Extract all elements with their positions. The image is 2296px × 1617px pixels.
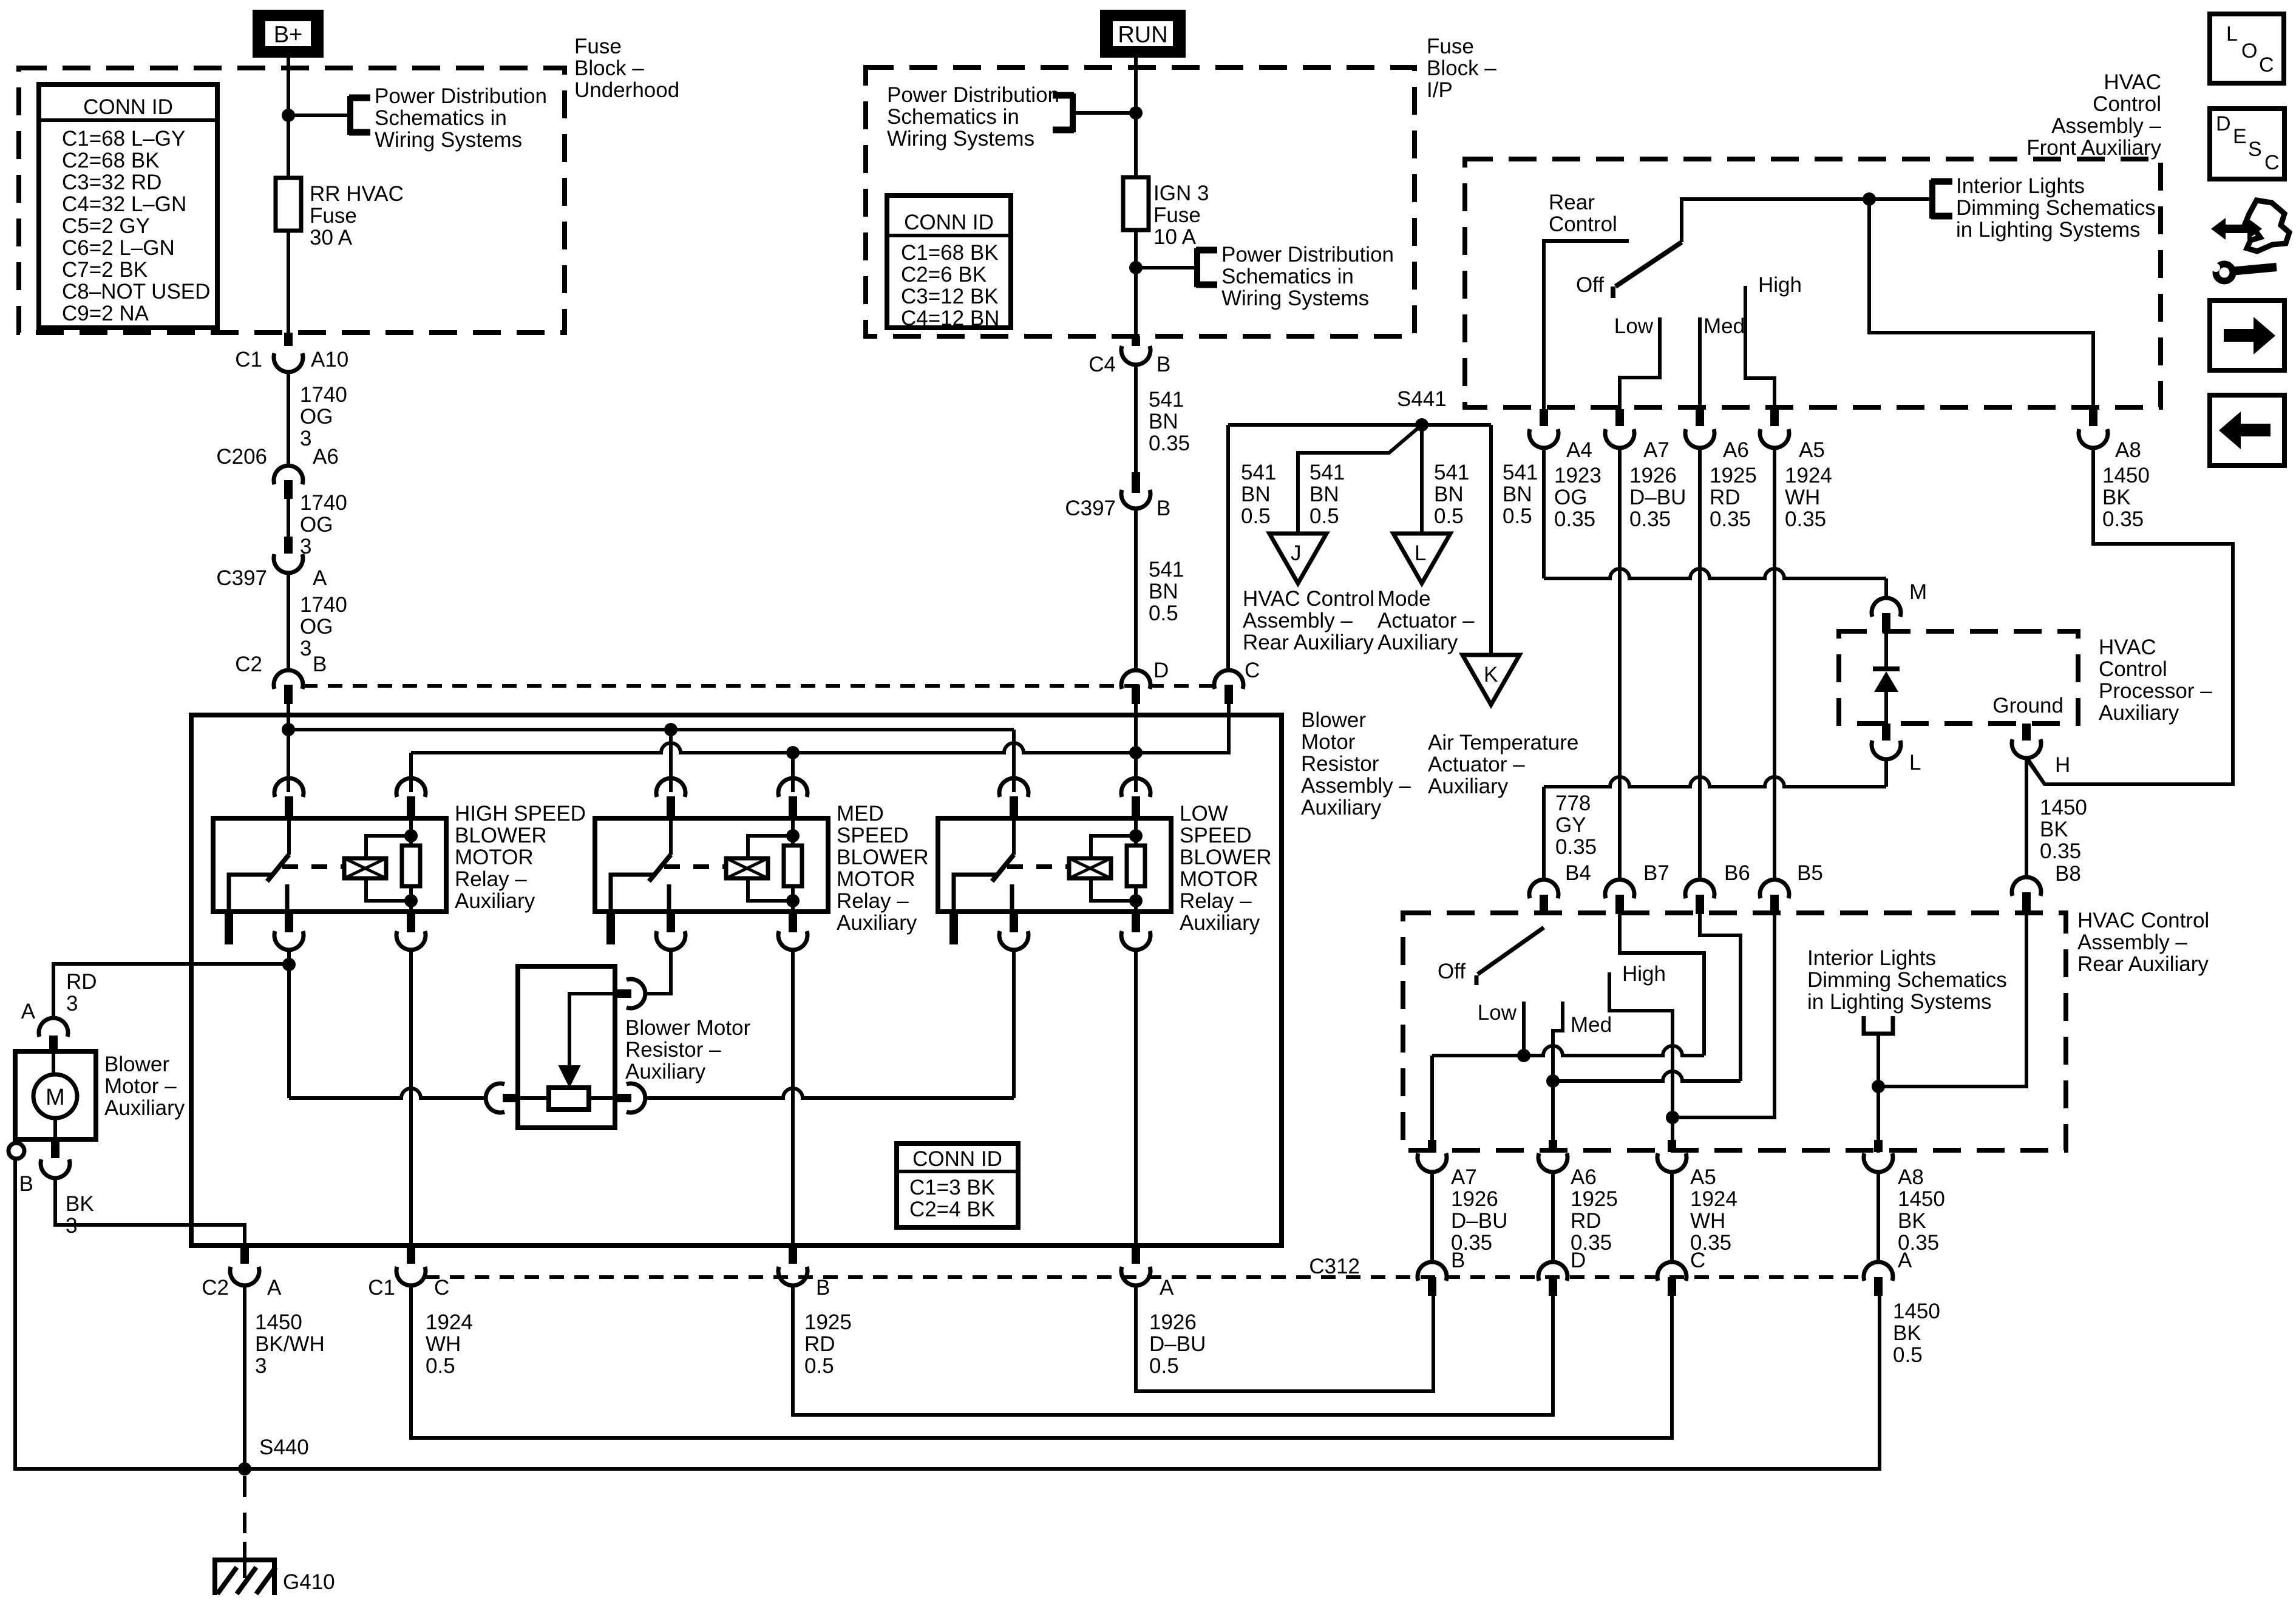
wire A5 1924 WH [1773, 449, 1776, 879]
svg-text:1450: 1450 [1898, 1187, 1945, 1211]
svg-text:A4: A4 [1566, 438, 1592, 462]
svg-text:0.35: 0.35 [1555, 835, 1597, 859]
relay switch contacts [229, 875, 273, 912]
wire 1450 BK [1877, 1173, 1880, 1262]
svg-text:10 A: 10 A [1153, 225, 1197, 249]
svg-text:Underhood: Underhood [574, 78, 679, 102]
svg-text:Low: Low [1478, 1001, 1517, 1025]
svg-text:0.5: 0.5 [1893, 1343, 1923, 1367]
svg-text:Fuse: Fuse [574, 35, 622, 58]
svg-text:Wiring Systems: Wiring Systems [887, 127, 1034, 151]
svg-text:Power Distribution: Power Distribution [1221, 243, 1394, 266]
relay top pin stubs [667, 796, 675, 819]
svg-text:Relay –: Relay – [1180, 889, 1252, 913]
svg-text:D: D [1153, 659, 1169, 682]
relay top pin stubs [1010, 796, 1018, 819]
svg-text:G410: G410 [283, 1570, 335, 1594]
svg-text:Power Distribution: Power Distribution [887, 83, 1059, 107]
rear H2 line [1553, 1071, 1741, 1081]
svg-text:Resistor: Resistor [1301, 752, 1379, 776]
svg-text:Fuse: Fuse [1153, 203, 1201, 227]
svg-text:C2=6 BK: C2=6 BK [901, 263, 987, 286]
svg-text:O: O [2241, 39, 2257, 63]
svg-text:541: 541 [1309, 461, 1345, 484]
rail B risers [409, 753, 413, 792]
svg-text:Fuse: Fuse [310, 204, 357, 228]
svg-text:C7=2 BK: C7=2 BK [62, 258, 148, 282]
connector M [1872, 598, 1901, 617]
svg-text:Assembly –: Assembly – [2077, 931, 2187, 954]
relay coil link [664, 864, 725, 869]
svg-text:C206: C206 [216, 445, 267, 469]
svg-text:Schematics in: Schematics in [887, 105, 1019, 129]
svg-text:L: L [2226, 22, 2238, 46]
svg-text:BK: BK [2102, 486, 2131, 509]
hvac control assembly front auxiliary box [1465, 159, 2161, 407]
svg-text:0.5: 0.5 [426, 1354, 455, 1378]
svg-text:BN: BN [1149, 580, 1178, 603]
resistor bottom line left [289, 1088, 486, 1098]
svg-text:C397: C397 [1065, 497, 1116, 520]
svg-text:A: A [313, 566, 327, 590]
svg-text:A5: A5 [1799, 438, 1825, 462]
svg-text:Fuse: Fuse [1427, 35, 1474, 58]
svg-text:Auxiliary: Auxiliary [2099, 701, 2179, 725]
wire B+ down [287, 56, 290, 333]
relay bottom pin stubs [1010, 912, 1018, 932]
svg-text:K: K [1484, 663, 1498, 686]
svg-text:0.5: 0.5 [1503, 504, 1532, 528]
rail A drop to relay2 [669, 730, 673, 792]
power node RUN [1101, 11, 1184, 56]
rear med contact [1553, 1002, 1563, 1153]
svg-text:Blower Motor: Blower Motor [625, 1016, 751, 1040]
svg-text:Front Auxiliary: Front Auxiliary [2026, 136, 2161, 160]
svg-text:BN: BN [1309, 483, 1339, 506]
svg-text:Power Distribution: Power Distribution [375, 84, 547, 108]
svg-text:OG: OG [300, 405, 333, 429]
svg-text:Auxiliary: Auxiliary [1428, 775, 1509, 798]
rear B6 leg [1700, 914, 1741, 1081]
svg-text:C: C [2264, 151, 2280, 174]
svg-text:Schematics in: Schematics in [1221, 265, 1354, 288]
svg-text:B7: B7 [1643, 861, 1669, 885]
blower case ground circle [8, 1143, 24, 1159]
wire relay3 left pin down to resistor line [1012, 951, 1016, 1098]
svg-text:C4=32 L–GN: C4=32 L–GN [62, 192, 186, 216]
svg-text:RD: RD [804, 1332, 835, 1356]
svg-text:E: E [2233, 125, 2247, 148]
svg-text:High: High [1622, 962, 1666, 986]
fuse RR HVAC 30A [276, 178, 301, 231]
svg-text:D: D [2216, 112, 2231, 135]
connector A6 [1696, 409, 1704, 426]
svg-text:IGN 3: IGN 3 [1153, 181, 1209, 205]
front rear control contact [1544, 241, 1629, 409]
svg-text:HVAC Control: HVAC Control [2077, 909, 2209, 932]
svg-text:0.5: 0.5 [804, 1354, 834, 1378]
svg-text:1925: 1925 [1710, 464, 1757, 487]
svg-text:541: 541 [1149, 558, 1184, 581]
relay bottom pin connectors [999, 931, 1028, 950]
connector C312 A [1864, 1262, 1893, 1281]
rear A7 leg [1430, 1056, 1434, 1153]
svg-text:C3=32 RD: C3=32 RD [62, 171, 161, 194]
icon wrench [2216, 264, 2233, 281]
svg-text:Block –: Block – [574, 56, 644, 80]
wire blower motor B [55, 1179, 245, 1246]
svg-text:C4: C4 [1089, 353, 1116, 376]
svg-text:Motor: Motor [1301, 730, 1356, 754]
svg-text:Control: Control [2099, 657, 2167, 681]
blower motor resistor box [518, 966, 615, 1128]
svg-text:A6: A6 [1571, 1165, 1597, 1189]
svg-text:A6: A6 [1723, 438, 1749, 462]
rear B7 leg [1620, 914, 1704, 1056]
svg-text:BLOWER: BLOWER [837, 846, 929, 869]
front interior lights bracket [1929, 180, 1935, 219]
wire S441 to L [1420, 425, 1424, 534]
svg-text:Auxiliary: Auxiliary [1180, 911, 1260, 935]
wire 1925 RD [1551, 1173, 1555, 1262]
svg-text:RD: RD [1571, 1209, 1601, 1233]
svg-text:I/P: I/P [1427, 78, 1453, 102]
connector A bottom [1132, 1246, 1140, 1264]
svg-text:Rear Auxiliary: Rear Auxiliary [1243, 631, 1374, 654]
relay coil [344, 858, 386, 878]
wire A7 1926 DBU [1618, 449, 1622, 879]
svg-text:Wiring Systems: Wiring Systems [375, 128, 522, 152]
wire 1740 OG [287, 373, 290, 466]
svg-text:D–BU: D–BU [1629, 486, 1686, 509]
svg-text:1924: 1924 [426, 1310, 473, 1334]
wire A4 1923 OG [1542, 449, 1546, 578]
svg-text:B: B [1451, 1249, 1465, 1272]
connector A4 [1540, 409, 1548, 426]
svg-text:1924: 1924 [1690, 1187, 1737, 1211]
svg-text:1450: 1450 [2102, 464, 2150, 487]
svg-text:SPEED: SPEED [1180, 824, 1252, 847]
connector C312 C [1657, 1262, 1686, 1281]
svg-text:RUN: RUN [1118, 22, 1167, 48]
svg-text:1450: 1450 [1893, 1300, 1940, 1323]
wire 1926 DBU [1136, 1286, 1433, 1391]
relay resistor [1134, 818, 1138, 846]
icon vehicle outline [2245, 200, 2289, 251]
svg-text:in Lighting Systems: in Lighting Systems [1807, 990, 1991, 1014]
svg-text:0.35: 0.35 [1629, 507, 1671, 531]
svg-text:0.5: 0.5 [1309, 504, 1339, 528]
icon LOC box [2210, 14, 2284, 83]
icon DESC box [2210, 109, 2284, 179]
blower motor box [15, 1051, 96, 1139]
svg-text:HVAC: HVAC [2104, 70, 2161, 94]
svg-text:RD: RD [66, 970, 97, 994]
svg-text:BN: BN [1241, 483, 1271, 506]
svg-text:B+: B+ [274, 22, 303, 48]
svg-text:Med: Med [1571, 1013, 1612, 1037]
svg-text:Actuator –: Actuator – [1377, 609, 1475, 632]
svg-text:CONN ID: CONN ID [904, 211, 994, 234]
connector B bottom [789, 1246, 797, 1264]
svg-text:BN: BN [1503, 483, 1532, 506]
wire 1740 OG 3 [287, 574, 290, 670]
wire blower motor A [53, 964, 289, 1017]
svg-text:C1=68 L–GY: C1=68 L–GY [62, 127, 185, 151]
node junction to power distribution left [1129, 106, 1143, 120]
svg-text:BK: BK [66, 1192, 94, 1216]
svg-text:B8: B8 [2055, 862, 2081, 886]
connector A8 [2089, 409, 2097, 426]
front high contact [1745, 286, 1775, 409]
svg-text:Actuator –: Actuator – [1428, 753, 1525, 776]
svg-text:Low: Low [1614, 314, 1654, 338]
relay bottom pin stubs [667, 912, 675, 932]
relay box [938, 818, 1171, 912]
wire 1924 WH [1670, 1173, 1674, 1262]
svg-text:A: A [267, 1276, 282, 1300]
left rail to S440 [15, 1159, 245, 1469]
svg-text:C1: C1 [235, 348, 262, 371]
connector C397 pin A [284, 537, 293, 554]
svg-text:H: H [2055, 753, 2070, 777]
svg-text:0.5: 0.5 [1149, 602, 1178, 625]
svg-text:A10: A10 [311, 348, 348, 371]
relay switch contacts [954, 875, 997, 912]
conn id table resistor [897, 1144, 1018, 1227]
relay 87a dead stub [225, 912, 233, 944]
svg-text:in Lighting Systems: in Lighting Systems [1956, 218, 2140, 242]
svg-text:Rear: Rear [1549, 191, 1595, 214]
svg-text:GY: GY [1555, 813, 1586, 837]
svg-text:A8: A8 [2115, 438, 2141, 462]
relay switch [287, 818, 291, 855]
front low contact [1620, 317, 1660, 409]
svg-text:1923: 1923 [1554, 464, 1601, 487]
svg-text:L: L [1415, 541, 1426, 565]
rear B8 leg [1878, 914, 2026, 1086]
bracket power distribution IP right [1194, 248, 1200, 287]
svg-text:M: M [46, 1085, 65, 1110]
svg-text:1924: 1924 [1785, 464, 1832, 487]
svg-text:Relay –: Relay – [455, 867, 527, 891]
svg-text:1926: 1926 [1451, 1187, 1498, 1211]
front switch feed [1682, 199, 1932, 242]
svg-text:Motor –: Motor – [104, 1074, 177, 1098]
svg-text:C: C [2259, 53, 2274, 76]
front med contact [1698, 317, 1702, 409]
svg-text:3: 3 [66, 1214, 77, 1238]
svg-text:S441: S441 [1397, 387, 1447, 411]
wire S441 to K [1489, 425, 1493, 655]
svg-text:L: L [1909, 751, 1921, 775]
svg-text:C8–NOT USED: C8–NOT USED [62, 280, 210, 303]
svg-text:3: 3 [300, 427, 311, 450]
svg-text:1450: 1450 [2040, 796, 2087, 819]
wire relay1 left pin down [287, 951, 291, 1098]
svg-text:Interior Lights: Interior Lights [1807, 946, 1936, 970]
connector blower B [51, 1140, 59, 1158]
wire D to rail B [1134, 704, 1138, 792]
node junction to power distribution [282, 109, 295, 122]
connector H ground [2022, 724, 2031, 741]
bracket power distribution IP left [1070, 93, 1076, 132]
svg-text:HIGH SPEED: HIGH SPEED [455, 802, 586, 825]
icon back arrow box [2210, 395, 2284, 466]
svg-text:A8: A8 [1898, 1165, 1924, 1189]
svg-text:Auxiliary: Auxiliary [1377, 631, 1458, 654]
connector rear A6 [1549, 1140, 1557, 1152]
svg-text:B: B [1156, 353, 1170, 376]
wire L to B4 [1884, 760, 1888, 787]
svg-text:3: 3 [66, 992, 78, 1015]
svg-text:S: S [2248, 138, 2262, 161]
svg-text:0.35: 0.35 [1785, 507, 1826, 531]
svg-text:3: 3 [300, 637, 311, 660]
node junction to power distribution right [1129, 261, 1143, 274]
connector L processor [1882, 724, 1890, 741]
svg-text:1740: 1740 [300, 593, 347, 617]
rear interior lights bracket [1864, 1016, 1893, 1034]
svg-text:HVAC: HVAC [2099, 636, 2156, 659]
svg-text:J: J [1291, 541, 1302, 565]
rail A drop to relay3 [1012, 730, 1016, 792]
svg-text:OG: OG [1554, 486, 1587, 509]
rail A power [288, 728, 1014, 731]
svg-text:0.35: 0.35 [2040, 839, 2081, 863]
svg-text:Dimming Schematics: Dimming Schematics [1956, 196, 2156, 220]
svg-text:C1: C1 [368, 1276, 395, 1300]
wire 1924 WH [411, 1286, 1672, 1438]
hvac control processor dashed box [1839, 631, 2078, 724]
svg-text:OG: OG [300, 513, 333, 537]
svg-text:C397: C397 [216, 566, 267, 590]
ground wire dashed [243, 1476, 246, 1545]
relay switch contacts [611, 875, 654, 912]
connector C1 pin A10 [284, 333, 293, 346]
dotted harness line lower [425, 1275, 1866, 1279]
rear interior lights leg [1877, 1034, 1880, 1153]
rail B [411, 743, 1229, 753]
relay switch [669, 818, 673, 855]
relay bottom pin connectors [656, 931, 685, 950]
svg-text:541: 541 [1434, 461, 1469, 484]
wire A6 1925 RD [1698, 449, 1702, 879]
svg-text:C2=68 BK: C2=68 BK [62, 149, 160, 172]
ground G410 [215, 1560, 274, 1595]
svg-text:RR HVAC: RR HVAC [310, 182, 404, 206]
wire S441 to C connector [1226, 425, 1230, 670]
relay coil link [282, 864, 343, 869]
svg-text:C312: C312 [1309, 1255, 1360, 1278]
wire 1926 D–BU [1430, 1173, 1434, 1262]
svg-text:3: 3 [255, 1354, 267, 1378]
svg-text:BK: BK [1893, 1321, 1921, 1345]
svg-text:A: A [21, 1000, 36, 1023]
svg-text:D–BU: D–BU [1149, 1332, 1206, 1356]
rear B5 leg [1673, 914, 1775, 1117]
relay bottom pin connectors [274, 931, 304, 950]
resistor element [549, 1088, 589, 1110]
svg-text:B: B [313, 653, 327, 676]
svg-text:OG: OG [300, 615, 333, 639]
svg-text:WH: WH [1690, 1209, 1725, 1233]
svg-text:1740: 1740 [300, 491, 347, 515]
connector blower A [39, 1018, 68, 1037]
svg-text:0.35: 0.35 [2102, 507, 2144, 531]
relay coil wires [748, 836, 793, 858]
svg-text:BN: BN [1149, 410, 1178, 433]
resistor left connector [486, 1083, 504, 1113]
relay resistor [409, 818, 413, 846]
svg-text:1450: 1450 [255, 1310, 302, 1334]
svg-text:B: B [816, 1276, 830, 1300]
svg-text:BN: BN [1434, 483, 1464, 506]
svg-text:BK: BK [2040, 818, 2068, 841]
svg-text:B5: B5 [1797, 861, 1823, 885]
svg-text:M: M [1909, 580, 1927, 604]
svg-text:Relay –: Relay – [837, 889, 909, 913]
connector C397 pin B run [1132, 472, 1140, 493]
connector A5 [1770, 409, 1779, 426]
blower motor symbol [33, 1074, 77, 1118]
resistor bottom line right [646, 1088, 1014, 1098]
svg-text:WH: WH [426, 1332, 461, 1356]
svg-text:Air Temperature: Air Temperature [1428, 731, 1578, 754]
svg-text:C6=2 L–GN: C6=2 L–GN [62, 236, 175, 260]
svg-text:MOTOR: MOTOR [455, 846, 534, 869]
diode [1884, 632, 1888, 669]
connector C4 pin B [1132, 336, 1140, 346]
svg-text:Blower: Blower [104, 1053, 169, 1076]
svg-text:C2: C2 [202, 1276, 229, 1300]
splice S440 [238, 1462, 251, 1476]
svg-text:Control: Control [2093, 92, 2161, 116]
svg-text:30 A: 30 A [310, 226, 353, 249]
relay box [213, 818, 446, 912]
svg-text:A5: A5 [1690, 1165, 1716, 1189]
svg-text:Off: Off [1438, 960, 1466, 983]
svg-text:Schematics in: Schematics in [375, 106, 507, 130]
svg-text:Auxiliary: Auxiliary [837, 911, 917, 935]
relay switch [1012, 818, 1016, 855]
bracket power distribution underhood [347, 96, 353, 135]
svg-text:Block –: Block – [1427, 56, 1496, 80]
svg-text:0.35: 0.35 [1710, 507, 1751, 531]
svg-text:B4: B4 [1565, 861, 1591, 885]
connector C312 D [1538, 1262, 1567, 1281]
wire S440 to C312 A [245, 1294, 1880, 1469]
svg-text:MED: MED [837, 802, 884, 825]
svg-text:A6: A6 [313, 445, 339, 469]
resistor tap arrow [569, 994, 614, 1067]
blower motor resistor assembly box [191, 715, 1282, 1246]
relay coil [726, 858, 768, 878]
wire to power distribution bracket [288, 114, 350, 117]
svg-text:Mode: Mode [1377, 587, 1431, 611]
svg-text:BLOWER: BLOWER [455, 824, 547, 847]
dotted harness line upper [303, 684, 1214, 688]
svg-text:D: D [1571, 1249, 1586, 1272]
svg-text:CONN ID: CONN ID [83, 95, 173, 119]
relay top pin connectors [999, 778, 1028, 797]
wire relay2 left pin to resistor top [646, 951, 671, 994]
svg-text:C3=12 BK: C3=12 BK [901, 285, 999, 308]
wire S441 horizontal [1228, 423, 1491, 427]
svg-text:1740: 1740 [300, 383, 347, 407]
relay coil wires [366, 836, 411, 858]
wire 1740 OG 2 [287, 499, 290, 544]
